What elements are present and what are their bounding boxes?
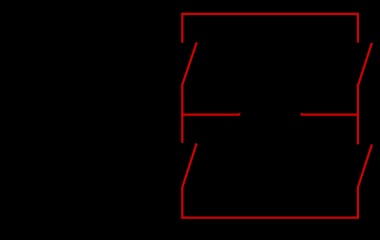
node terminal nub left — [239, 113, 241, 114]
switch S4 blade (lower right) — [358, 144, 372, 186]
switch S3 blade (lower left) — [182, 143, 196, 187]
wire left traveler (between S1 and S3) — [181, 84, 183, 143]
node terminal nub right — [301, 113, 303, 114]
switch S1 blade (upper left) — [183, 42, 197, 84]
wire right traveler (between S2 and S4) — [357, 84, 359, 144]
wire top rail with upper switch leads — [182, 14, 358, 43]
wire middle rail right segment — [301, 113, 359, 115]
switch S2 blade (upper right) — [358, 43, 372, 85]
wire middle rail left segment — [181, 113, 240, 115]
wire bottom rail with lower switch leads — [182, 186, 358, 217]
